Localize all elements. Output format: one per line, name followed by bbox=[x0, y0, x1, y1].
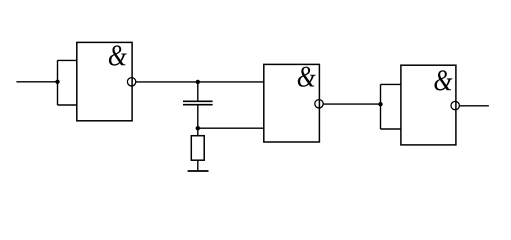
gate U3 body bbox=[401, 65, 456, 145]
wire U2 output to U3 bbox=[323, 103, 380, 105]
capacitor C1 bottom plate bbox=[183, 104, 213, 106]
wire U1 pin 2 stub bbox=[58, 104, 77, 106]
label U3 & bbox=[434, 70, 452, 90]
label U2 & bbox=[298, 67, 316, 87]
wire U1 output to U2 pin 1 bbox=[136, 81, 264, 83]
bubble U1 output bbox=[127, 78, 135, 86]
node junction C1 / R1 / U2 pin 2 bbox=[196, 126, 200, 130]
wire U3 input bracket vertical bbox=[380, 84, 382, 129]
gate U2 body bbox=[264, 64, 320, 142]
wire input left bbox=[16, 81, 57, 83]
capacitor C1 top plate bbox=[183, 100, 213, 102]
wire junction to U2 pin 2 bbox=[198, 127, 264, 129]
node junction U2 output / U3 inputs bbox=[378, 102, 382, 106]
wire U3 pin 2 stub bbox=[381, 128, 401, 130]
resistor R1 body bbox=[191, 136, 204, 161]
bubble U2 output bbox=[315, 100, 323, 108]
wire R1 bottom lead bbox=[197, 160, 199, 171]
bubble U3 output bbox=[451, 101, 459, 109]
wire C1 top lead bbox=[197, 82, 199, 101]
node junction U1 output / C1 bbox=[196, 80, 200, 84]
label U1 & bbox=[109, 45, 127, 65]
node junction input to U1 bbox=[55, 80, 59, 84]
wire U1 pin 1 stub bbox=[58, 59, 77, 61]
ground bbox=[188, 170, 209, 172]
wire U1 input bracket vertical bbox=[57, 60, 59, 105]
wire U3 pin 1 stub bbox=[381, 83, 401, 85]
wire U3 output right bbox=[460, 105, 489, 107]
gate U1 body bbox=[77, 42, 132, 120]
wire C1 bottom lead to R1 bbox=[197, 105, 199, 136]
